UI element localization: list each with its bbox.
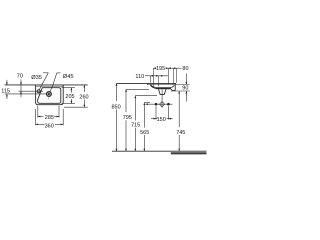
height dim 745: [178, 91, 180, 151]
svg-text:795: 795: [123, 115, 132, 121]
tap hole circle (D35): [37, 90, 40, 93]
svg-text:110: 110: [135, 74, 144, 80]
dimension 90 (rim height right): [185, 74, 187, 102]
dimension 80 (top chain, label right): [168, 67, 181, 69]
washbasin outer rim (top view): [36, 85, 64, 105]
svg-text:285: 285: [45, 115, 54, 121]
svg-text:115: 115: [1, 88, 10, 94]
drain inner filled circle: [48, 93, 50, 95]
svg-text:90: 90: [182, 86, 188, 92]
svg-text:195: 195: [156, 66, 165, 72]
label D35 leader: [39, 73, 48, 90]
height dim 715 + ext: [135, 96, 157, 152]
basin bowl underside silhouette: [150, 83, 175, 90]
label D45 leader: [50, 73, 61, 92]
svg-text:715: 715: [131, 123, 140, 129]
dimension 360 (basin width): [36, 109, 64, 125]
drain outlet diamond symbol: [159, 102, 164, 107]
drain outer circle (D45): [47, 92, 52, 97]
height dim 850: [116, 83, 118, 151]
svg-text:70: 70: [17, 74, 23, 80]
wire: rim top line with extensions: [117, 82, 177, 84]
svg-text:745: 745: [176, 130, 185, 136]
drain stub connector: [161, 89, 163, 100]
svg-text:80: 80: [182, 66, 188, 72]
svg-text:260: 260: [79, 95, 88, 101]
rim top second line: [148, 83, 190, 85]
fixing dot left: [155, 103, 158, 106]
svg-text:850: 850: [112, 104, 121, 110]
height dim 565 + ext: [144, 103, 150, 152]
basin under-bowl thick band: [157, 88, 171, 90]
drain outlet vertical cross: [161, 101, 163, 108]
height dim 795 + ext: [126, 89, 149, 151]
svg-text:Ø35: Ø35: [31, 75, 42, 81]
floor line: [112, 150, 207, 152]
dimension 205 (bowl depth): [62, 88, 76, 104]
dimension 195 (top chain): [153, 67, 168, 69]
dimension 260 (basin depth): [64, 85, 88, 107]
basin rear edge second line: [36, 85, 64, 87]
ext line rim-bottom to right: [171, 90, 190, 92]
dimension 285 (bowl width): [38, 106, 59, 118]
wire: wall line behind basin: [5, 84, 88, 86]
extension lines from top dims to rim: [150, 68, 176, 86]
dimension 110: [145, 75, 168, 77]
svg-text:Ø45: Ø45: [63, 74, 74, 80]
bowl inner outline: [38, 88, 61, 104]
svg-text:565: 565: [140, 130, 149, 136]
dimension 115 (wall to drain): [5, 80, 47, 99]
svg-text:360: 360: [45, 124, 54, 130]
svg-text:150: 150: [157, 117, 166, 123]
drain stub trapezoid: [158, 89, 166, 95]
dimension 70 (wall to tap hole): [19, 80, 43, 98]
dimension 150 (fixing dots spacing): [151, 106, 173, 119]
fixing dots line: [146, 103, 173, 105]
fixing dot right: [167, 103, 170, 106]
basin left rim edge: [147, 83, 149, 84]
basin bowl inner line: [151, 85, 174, 88]
floor thick bar: [171, 152, 207, 154]
drain shadow line below: [48, 97, 50, 100]
svg-text:205: 205: [65, 94, 74, 100]
